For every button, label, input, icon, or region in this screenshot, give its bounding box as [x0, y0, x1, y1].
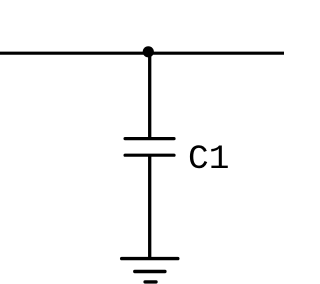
capacitor C1: [125, 139, 174, 156]
node junction dot: [143, 46, 154, 57]
wire: horizontal net across top: [0, 52, 284, 55]
ground: [122, 259, 178, 282]
wire: vertical from junction down to C1 top plate: [148, 52, 151, 139]
wire: vertical from C1 bottom plate down to ground: [148, 155, 151, 258]
svg-text:C1: C1: [188, 140, 229, 179]
